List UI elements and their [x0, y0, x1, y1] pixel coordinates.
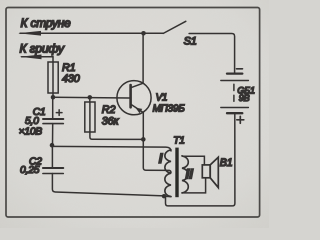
svg-text:36к: 36к	[102, 115, 120, 127]
capacitor C2	[43, 168, 63, 174]
node: К струне lead-out arrow	[18, 31, 163, 36]
svg-text:В1: В1	[220, 157, 233, 169]
svg-text:К грифу: К грифу	[20, 42, 66, 56]
svg-text:II: II	[185, 166, 194, 182]
transistor V1 МП39Б	[117, 33, 151, 115]
wire R1 lead through body	[52, 62, 54, 97]
border frame	[6, 8, 260, 218]
node: К грифу lead-out arrow	[20, 55, 54, 60]
node D: collector junction on top rail	[141, 31, 146, 36]
capacitor C1	[43, 110, 63, 124]
capacitor C1 top lead	[52, 97, 54, 118]
transformer T1 primary winding I	[165, 150, 171, 197]
wire secondary bottom lead to speaker	[182, 178, 206, 193]
node B: junction R2 top	[88, 95, 93, 100]
node A: junction R1/C1	[51, 95, 56, 100]
svg-text:S1: S1	[184, 35, 197, 47]
resistor R2	[85, 102, 95, 132]
speaker B1	[202, 157, 218, 187]
transformer core	[175, 148, 178, 198]
wire secondary top lead to speaker	[182, 156, 204, 165]
wire junction to winding bottom	[164, 195, 171, 197]
node F: junction transformer primary bottom	[162, 194, 166, 198]
wire to transformer primary top	[52, 146, 171, 151]
battery GБ1	[221, 69, 249, 124]
wire C2 bottom lead to transformer bottom junction	[52, 174, 164, 196]
svg-text:430: 430	[62, 73, 80, 85]
svg-text:T1: T1	[173, 135, 185, 146]
svg-text:9В: 9В	[239, 93, 250, 103]
wire battery plus lead down to bottom rail	[166, 113, 235, 206]
svg-text:МП39Б: МП39Б	[153, 103, 186, 114]
svg-text:×10В: ×10В	[19, 127, 43, 138]
wire R2 top lead	[89, 97, 91, 102]
node C: junction C1/C2	[50, 143, 55, 148]
svg-text:0,25: 0,25	[20, 165, 40, 176]
svg-text:R2: R2	[102, 104, 116, 116]
wire R2 bottom lead to emitter	[90, 132, 143, 139]
node E: junction R2/emitter	[141, 137, 146, 142]
capacitor C1 bottom lead	[52, 124, 54, 146]
transformer T1 secondary winding II	[182, 156, 188, 193]
svg-text:К струне: К струне	[21, 16, 72, 30]
wire emitter lead to transformer tap	[143, 112, 171, 172]
wire base bus y=97	[53, 96, 131, 99]
switch S1	[163, 21, 234, 73]
svg-text:V1: V1	[156, 92, 168, 103]
wire R1 top lead	[52, 57, 54, 62]
wire R2 lead through body	[89, 102, 91, 132]
resistor R1	[48, 62, 58, 93]
svg-text:5,0: 5,0	[25, 116, 39, 127]
capacitor C2 top lead	[51, 145, 53, 167]
